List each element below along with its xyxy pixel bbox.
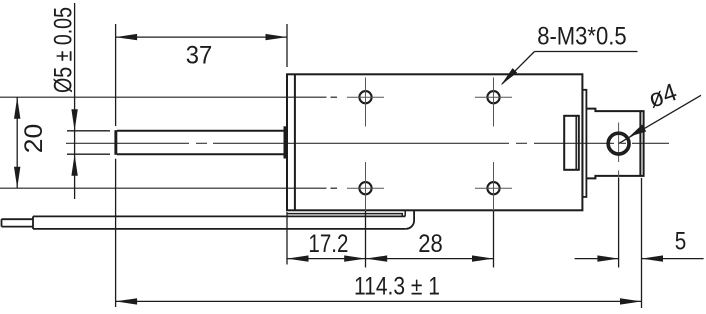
dim 37 arrow right bbox=[266, 34, 288, 40]
dim 5 extension line right bbox=[641, 178, 643, 308]
top hole-row centerline bbox=[0, 96, 337, 98]
dim 37 arrow left bbox=[116, 34, 138, 40]
mounting hole top-right bbox=[475, 78, 512, 127]
dim 5 arrow right-pointing bbox=[597, 255, 619, 261]
terminal tab strip bbox=[287, 214, 402, 217]
main horizontal centerline bbox=[66, 142, 669, 144]
lead wire insulation bbox=[33, 216, 406, 229]
dim 28 arrow left bbox=[366, 255, 388, 261]
svg-text:5: 5 bbox=[675, 228, 687, 256]
dim 17.2 extension line (body edge) bbox=[286, 212, 288, 265]
dim 114.3 extension line left bbox=[115, 159, 117, 307]
dim 114.3 arrow right bbox=[620, 298, 642, 304]
rear thin plate bbox=[582, 90, 586, 197]
dim 17.2 arrow left bbox=[287, 255, 309, 261]
dim 37 extension line left bbox=[115, 24, 117, 126]
rear collar boss bbox=[564, 116, 579, 170]
dim diameter5 tick top bbox=[67, 130, 110, 132]
dim 17.2/28 line bbox=[287, 258, 494, 260]
bottom hole-row centerline bbox=[0, 187, 337, 189]
dim 20 arrow down bbox=[14, 167, 20, 189]
leader 8-M3 arrowhead bbox=[501, 68, 517, 85]
dim 5 right segment bbox=[642, 258, 704, 260]
leader 8-M3 diagonal bbox=[502, 52, 535, 85]
mounting hole bottom-right bbox=[475, 162, 512, 268]
dim diameter5 arrow up bbox=[71, 154, 77, 176]
plunger shaft bbox=[117, 131, 284, 154]
shaft collar at body face bbox=[284, 126, 288, 158]
rear cylinder bbox=[586, 109, 643, 179]
dim 5 left segment bbox=[575, 258, 619, 260]
dim 5 arrow left-pointing bbox=[642, 255, 664, 261]
pin hole inner circle bbox=[609, 134, 628, 153]
mounting hole top-left bbox=[347, 78, 384, 127]
leader diameter4 arrowhead bbox=[630, 125, 647, 137]
dim 20 arrow up bbox=[14, 97, 20, 119]
leader diameter4 line bbox=[619, 95, 701, 143]
svg-text:17.2: 17.2 bbox=[308, 230, 348, 258]
dim 28 arrow right bbox=[472, 255, 494, 261]
dim diameter5 dimension line bbox=[74, 3, 76, 199]
solenoid body outline bbox=[287, 74, 582, 210]
svg-text:114.3 ± 1: 114.3 ± 1 bbox=[354, 273, 440, 301]
dim 20 line bbox=[16, 97, 18, 188]
leader 8-M3 underline bbox=[535, 51, 638, 53]
wire elbow to body bbox=[406, 210, 414, 229]
svg-text:28: 28 bbox=[418, 230, 443, 258]
mounting hole bottom-left bbox=[347, 162, 384, 268]
svg-text:Ø5 ± 0.05: Ø5 ± 0.05 bbox=[50, 7, 78, 93]
shaft left end cap bbox=[114, 130, 117, 155]
dim diameter5 arrow down bbox=[71, 109, 77, 131]
pin hole outer circle bbox=[607, 132, 630, 155]
svg-text:20: 20 bbox=[20, 124, 48, 154]
dim 114.3 line bbox=[116, 300, 642, 302]
dim diameter5 tick bottom bbox=[67, 153, 110, 155]
svg-text:8-M3*0.5: 8-M3*0.5 bbox=[537, 23, 627, 51]
dim 17.2 arrow right bbox=[344, 255, 366, 261]
lead wire bare end bbox=[2, 219, 34, 226]
body inner left line bbox=[294, 74, 296, 210]
svg-text:37: 37 bbox=[186, 42, 213, 70]
pin hole vertical centerline bbox=[618, 123, 620, 163]
wire top corner to body bbox=[404, 211, 406, 217]
rear collar inner line bbox=[575, 116, 577, 170]
rear cylinder end face line bbox=[639, 111, 641, 176]
dim 37 extension line right bbox=[286, 24, 288, 67]
dim 37 line bbox=[116, 36, 287, 38]
dim 114.3 arrow left bbox=[116, 298, 138, 304]
